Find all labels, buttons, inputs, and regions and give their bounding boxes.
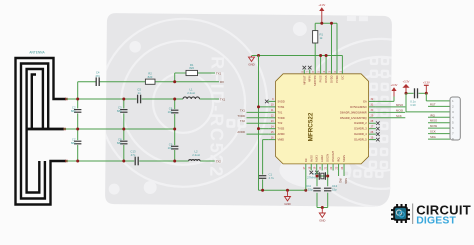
- svg-text:10p: 10p: [168, 146, 173, 150]
- svg-text:27MHz: 27MHz: [307, 176, 316, 180]
- svg-text:RX: RX: [304, 158, 308, 162]
- svg-text:PVSS: PVSS: [319, 75, 323, 82]
- svg-text:C10: C10: [410, 103, 416, 107]
- svg-text:AUX2: AUX2: [320, 155, 324, 162]
- svg-text:EA: EA: [363, 99, 367, 103]
- svg-text:PVDD: PVDD: [335, 75, 339, 82]
- svg-text:TX2: TX2: [240, 119, 246, 123]
- svg-text:SDA: SDA: [344, 178, 348, 184]
- svg-text:TVDD: TVDD: [237, 114, 245, 118]
- svg-text:I2C: I2C: [340, 75, 344, 79]
- svg-text:OSCOUT: OSCOUT: [331, 150, 335, 162]
- svg-text:820: 820: [148, 75, 153, 79]
- svg-text:GND: GND: [284, 202, 290, 206]
- svg-text:+3.3V: +3.3V: [403, 80, 410, 84]
- svg-text:DIGEST: DIGEST: [416, 215, 456, 226]
- svg-text:SDA: SDA: [430, 135, 436, 139]
- svg-text:68p: 68p: [117, 141, 122, 145]
- svg-text:D2/ADR_4: D2/ADR_4: [354, 132, 367, 136]
- svg-text:TX2: TX2: [216, 159, 222, 163]
- svg-text:SVDD: SVDD: [278, 99, 285, 103]
- svg-text:TX1: TX1: [240, 108, 246, 112]
- svg-text:D4/ADR_2: D4/ADR_2: [354, 121, 367, 125]
- svg-text:RST: RST: [430, 102, 436, 106]
- svg-text:SCK: SCK: [396, 114, 402, 118]
- svg-text:MFRC522: MFRC522: [308, 112, 315, 141]
- svg-text:MOSI: MOSI: [430, 124, 437, 128]
- svg-text:DVDD: DVDD: [330, 75, 334, 82]
- svg-text:2.2uH: 2.2uH: [192, 153, 199, 157]
- svg-text:TX2: TX2: [278, 121, 283, 125]
- svg-text:ANTENNA: ANTENNA: [29, 51, 45, 55]
- svg-text:TVSS: TVSS: [278, 105, 285, 109]
- svg-text:TVSS: TVSS: [278, 127, 285, 131]
- svg-text:15p: 15p: [308, 188, 313, 192]
- svg-text:AVDD: AVDD: [237, 130, 245, 134]
- svg-text:NRSTPD: NRSTPD: [313, 75, 317, 86]
- svg-text:SIGIN: SIGIN: [342, 155, 346, 162]
- svg-text:MOSI: MOSI: [396, 108, 403, 112]
- svg-text:IRQ: IRQ: [430, 113, 436, 117]
- svg-text:D3/ADR_3: D3/ADR_3: [354, 127, 367, 131]
- svg-text:68p: 68p: [71, 141, 76, 145]
- svg-text:10p: 10p: [168, 110, 173, 114]
- svg-text:1n: 1n: [138, 91, 142, 95]
- svg-text:SCK: SCK: [430, 130, 436, 134]
- svg-text:D7/SCL/MISO: D7/SCL/MISO: [350, 105, 366, 109]
- svg-text:TVDD: TVDD: [278, 116, 285, 120]
- svg-text:AVDD: AVDD: [278, 132, 285, 136]
- svg-text:2.2uH: 2.2uH: [187, 91, 194, 95]
- svg-text:AUX1: AUX1: [315, 155, 319, 162]
- svg-text:4.7u: 4.7u: [269, 176, 275, 180]
- svg-text:GND: GND: [248, 63, 254, 67]
- svg-text:15p: 15p: [332, 188, 337, 192]
- svg-text:MISO: MISO: [396, 103, 404, 107]
- svg-text:47p: 47p: [95, 74, 100, 78]
- svg-text:D1/ADR_5: D1/ADR_5: [354, 138, 367, 142]
- svg-text:TX1: TX1: [216, 72, 222, 76]
- svg-text:AVSS: AVSS: [309, 155, 313, 162]
- svg-text:68p: 68p: [117, 109, 122, 113]
- svg-text:+3.3V: +3.3V: [318, 3, 325, 7]
- svg-text:RX: RX: [220, 80, 224, 84]
- svg-text:TX1: TX1: [220, 97, 226, 101]
- svg-text:DVSS: DVSS: [324, 75, 328, 82]
- svg-text:OSCIN: OSCIN: [326, 154, 330, 162]
- svg-text:IRQ: IRQ: [339, 178, 343, 184]
- svg-text:820: 820: [189, 66, 194, 70]
- svg-text:MISO: MISO: [430, 119, 438, 123]
- svg-text:MFIN: MFIN: [308, 75, 312, 81]
- svg-text:+3.3V: +3.3V: [423, 81, 430, 85]
- svg-text:GND: GND: [319, 218, 325, 222]
- svg-text:MFOUT: MFOUT: [302, 75, 306, 85]
- svg-text:47p: 47p: [131, 153, 136, 157]
- svg-text:68p: 68p: [71, 109, 76, 113]
- svg-text:IRQ: IRQ: [337, 157, 341, 162]
- svg-text:+3.3V: +3.3V: [391, 83, 398, 87]
- svg-text:C11: C11: [306, 184, 311, 188]
- svg-text:TX1: TX1: [278, 110, 283, 114]
- svg-text:D5/ADR_1/SCK/DTRQ: D5/ADR_1/SCK/DTRQ: [340, 116, 367, 120]
- svg-text:VMID: VMID: [278, 138, 285, 142]
- svg-text:D6/ADR_0/MOSI/NWR: D6/ADR_0/MOSI/NWR: [340, 110, 367, 114]
